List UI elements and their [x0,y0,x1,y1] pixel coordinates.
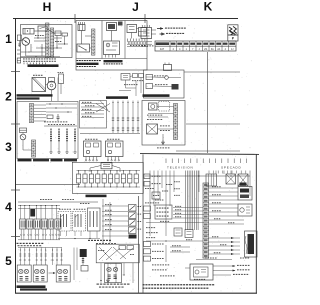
wire down from speaker [51,90,53,101]
terminal mark [61,250,62,251]
chain connector 4 [96,174,100,183]
pilot lamp [165,76,169,80]
below crossover marks [115,277,117,279]
row4 lower wires mid [58,238,100,240]
lamp unit LU2 [33,265,47,282]
wire [19,248,21,266]
stamp cell P [228,35,238,41]
switch S1 [38,26,47,31]
label dashes [147,114,149,117]
amplifier detail box [190,264,213,280]
antenna label ticks [33,74,35,77]
switch bank SW2 [27,219,33,229]
switch column dark connector [129,235,137,239]
wire [230,171,232,175]
J1 inner divider [101,21,103,59]
H1 caption HEADLAMP CLEANER [28,64,59,67]
connector strip CN-3 [92,29,95,55]
wire [40,206,42,220]
wire [165,245,167,262]
J1 caption CUSTOM 4AT left line1 [77,60,79,61]
crossover top connectors [119,246,126,250]
legend arrow symbol female [160,33,165,35]
row4 feed wires [18,201,98,203]
chain connector 1 [77,174,81,183]
crossover diagonals [99,247,133,260]
row4 right long verticals [102,199,104,243]
motor unit [149,103,158,110]
wire bus [127,41,152,43]
wire [51,206,53,220]
amplifier interface box [121,74,130,81]
wire [173,217,203,219]
relay B pins [74,231,76,236]
svg-text:H: H [43,0,52,14]
wire [25,45,27,56]
mid wires to strip [146,240,203,242]
left component chain [17,35,21,41]
lamp unit LU1 [17,265,31,282]
RU-1 pins [85,157,87,160]
wire [223,171,225,175]
switch bank SW4 [41,219,47,229]
J1 caption middle line1 [104,60,123,62]
wire [198,171,200,193]
label ticks above switches [48,123,50,126]
J1 caption left line3 [77,66,79,67]
border frame top [13,18,238,20]
switch bank SW6 pins [55,229,57,234]
left lower option boxes row 1 [144,242,151,247]
crossing wires [96,104,110,113]
grid row tick 2/3 [11,123,20,125]
relay box K1 [23,29,34,35]
pin marks [142,25,144,28]
footnote line 2 [143,288,145,289]
grid row tick 4/5 [11,236,20,238]
mid wire row long [146,222,203,224]
tuner box [146,75,153,80]
wire rows [157,106,174,108]
bus wire [44,125,77,127]
section main feed wire [145,175,250,177]
wire with arrow [209,245,240,247]
terminal mark [41,250,42,251]
crossover side dash [98,249,100,252]
left lamp L2 [20,134,26,140]
row4 mid labels [59,208,61,211]
lamp unit LU4 [105,264,122,283]
box C pins [89,231,91,238]
resistor R1 [62,33,68,36]
wire [249,171,251,197]
wire [219,170,221,172]
wire [102,225,128,227]
ribbon labels [174,180,175,183]
pump motor M2 top connector [78,25,85,31]
svg-text:2: 2 [5,89,12,103]
wire [40,248,42,266]
capacitor C1 [57,114,59,117]
wire [102,215,128,217]
pin labels row [23,58,25,61]
washer switch S2 [77,44,90,52]
grid column tick J/K [144,14,146,23]
right module 2 [238,204,252,216]
wire [153,85,172,88]
row4 lower label dashes mid [88,240,90,241]
pins [105,55,107,58]
wire label [105,209,107,212]
wire [162,134,164,140]
left bottom texts [152,264,154,267]
RU-2 pins [107,157,109,160]
grid rule K column vertical [207,52,209,153]
intermittent relay box [127,25,137,33]
wire [61,248,63,266]
connector strip CN-2 [51,28,54,57]
amp wire rows [81,103,104,105]
right mid wires [209,219,244,221]
door switch DS4 [129,227,137,234]
wire with arrow [209,237,240,239]
motor M1 [22,38,30,46]
chain bus bottom [77,186,141,188]
pillar antenna rod [59,74,64,84]
terminal mark [36,250,37,251]
section header pin ticks [165,159,167,164]
chain connector 2 [83,174,87,183]
wire label [212,209,214,212]
H2 caption AUDIO ANTENNA line1 [17,94,53,96]
svg-text:1J: 1J [231,49,233,51]
wire label [105,203,107,206]
rule above lower-right section [176,150,240,152]
wire [209,203,238,205]
mirror box with cross [147,124,158,134]
switch bank SW6 [55,219,61,229]
left extra small boxes [144,206,151,211]
K3 sub label [157,147,159,150]
wire [36,248,38,266]
wire [21,51,46,53]
footnote line 1 [143,284,145,285]
row4 mid dashed relay box B [73,212,86,232]
chain connector 9 [128,174,132,183]
wire label [105,213,107,216]
wire [102,230,128,232]
vertical harness wires [112,101,114,134]
lower-right section left border [142,154,144,293]
border frame left [15,19,17,294]
wire [119,90,131,92]
switch bank SW5 [49,219,54,229]
svg-text:T E L E V I S I O N: T E L E V I S I O N [167,166,193,170]
row4 mesh dark relay [30,209,35,217]
svg-text:J: J [199,49,200,51]
fuse box F1 [20,128,27,133]
switch bank SW4 pins [42,229,44,234]
wire [102,205,128,207]
wire [46,84,48,86]
wire [173,210,203,212]
H3 caption HORN GLOW band [18,159,32,162]
switch column 4 [74,128,76,152]
wire [19,206,21,220]
border frame bottom [15,292,257,294]
left lower option boxes row 3 [144,256,151,261]
wire [169,171,171,207]
row5 relay dark [80,249,87,257]
wire [56,206,58,220]
terminal mark [52,250,53,251]
switch column 1 [50,128,52,152]
row5 top bus [18,247,62,249]
row5 footer text 2 [99,286,101,289]
switch column 2 [58,128,60,152]
RU-2 label [107,138,109,141]
RU-1 label [85,138,87,141]
wire label [105,223,107,226]
wire [209,191,238,193]
wire [56,248,58,266]
wire [137,28,139,30]
wire [28,248,30,266]
H2 caption line2 [17,97,40,99]
svg-text:3: 3 [5,140,12,154]
terminal mark [45,250,46,251]
wire [157,171,159,197]
row4 caption dashes [17,243,19,244]
eq box [146,84,153,89]
wire [34,30,38,32]
collector wire [80,133,140,135]
relay A internals [60,214,62,227]
grid column tick H/J [74,14,76,23]
wire [102,211,128,213]
wire [111,31,113,42]
switch column side marks [138,205,139,208]
relay A pins [60,231,62,236]
door switch DS3 [129,220,137,227]
pin row [127,39,129,42]
svg-text:5: 5 [5,254,12,268]
relay unit RU-2 [106,141,124,157]
wire [24,248,26,266]
top label wire row [196,259,232,261]
wire [102,220,128,222]
row5 relay lower box [81,266,88,272]
wires below crossover [100,263,102,283]
switch bank SW1 [20,219,26,229]
terminal mark [57,250,58,251]
wire label [105,218,107,221]
relay B internals [74,214,76,227]
wire [102,235,128,237]
connector pin table [155,41,236,51]
row 3/4 separator line H column [16,184,80,186]
wire [52,248,54,266]
table header underline [155,45,236,47]
small marks [160,125,162,128]
upper right X-box 2 [238,174,248,186]
door switch DS1 [129,205,137,212]
crossover junction box [96,244,139,263]
wire [45,248,47,266]
wire label [212,193,214,196]
antenna unit box [32,78,46,92]
radio connector strip CN-4 [30,104,34,123]
H1 block ignition switch circuit box [21,25,73,58]
bridge wire [89,168,91,172]
wire [209,207,238,209]
wire label [212,185,214,188]
chain connector 8 [121,174,125,183]
legend text connector viewed from [165,28,167,29]
border frame right (lower section) [255,154,257,293]
ground G2 [107,278,109,280]
svg-text:J: J [132,0,139,14]
wire [29,206,31,220]
chain connector 7 [115,174,119,183]
left option connector 2 [144,182,150,187]
terminal dashes 2 [130,44,132,47]
J1 caption middle line2 [104,63,106,64]
washer tank unit [104,41,120,55]
junction [41,47,42,48]
upper right X-box 1 [226,174,236,184]
tiny labels [142,45,144,48]
bridge relay [101,163,112,169]
left extra labels [162,190,164,193]
left lower dash rows [146,226,148,229]
wire [153,76,165,79]
K2 caption band [143,94,170,97]
X-box 2 dark pins [240,183,247,186]
wire [173,214,203,216]
tall connector strip CN-B [203,183,209,258]
wire [209,211,238,213]
chain connector 5 [102,174,106,183]
wire [24,206,26,220]
dashed sub box [159,102,170,112]
grid rule row1/2 right area [184,71,240,73]
wire [36,206,38,220]
J1 caption left line2 [77,63,99,65]
connector strip CN-1 [46,23,49,58]
J3 console harness box [72,162,143,193]
right dark module [238,187,252,201]
ground G1 [162,140,164,142]
relay stem [82,257,84,265]
arrow wire labels [212,235,214,238]
wire [81,31,83,45]
wire with arrow [209,249,240,251]
switch column 3 [66,128,68,152]
row4 upper labels [40,198,42,201]
wire [22,133,24,135]
grid row tick 1/2 [11,71,20,73]
row5 caption band 1 [17,285,46,288]
small junction marks [29,52,30,53]
interlock switch box [141,28,152,39]
wire [153,171,155,207]
double dash marks on verticals [112,117,114,119]
lower-left section right border [138,196,140,293]
choke L1 [47,115,53,119]
J1 block washer circuit outer box [76,21,147,71]
switch bank SW5 pins [49,229,51,234]
wire [209,199,238,201]
speaker P1 [47,81,56,90]
svg-text:K: K [204,0,213,13]
dark connector [172,84,179,90]
wire [37,31,39,38]
wire dashes row [154,75,156,78]
wire [23,149,32,151]
pin ticks [78,22,80,25]
svg-text:4AT: 4AT [160,48,165,51]
K3 cd changer block box [142,101,185,146]
arrow wires right of amp [213,265,235,267]
relay unit RU-1 [84,141,102,157]
wire dashes row2 [155,83,157,86]
component small fuse [17,58,21,63]
fanout wires [34,104,47,106]
chain bus top [77,170,141,172]
row4 lower bus [18,239,60,241]
K2 lo-fi block box [144,70,185,98]
wire [34,37,46,39]
left small box [152,192,160,199]
lamp unit LU3 [56,265,70,282]
antenna feeder on top [164,65,172,71]
wire stub left [17,49,21,51]
wire [125,80,127,88]
row4 mid box C [88,208,101,231]
wire [131,33,133,39]
terminal mark [20,250,21,251]
switch bank SW2 pins [27,229,29,234]
revision stamp box [228,25,238,35]
short drop ticks from header [208,171,210,174]
ribbon cable bus [185,171,187,231]
wire rows with junctions [46,103,77,105]
diode D1 [55,31,61,36]
terminal mark [24,250,25,251]
wire labels mid bottom [172,244,174,247]
J1 inner divider 2 [124,21,126,59]
pin labels row [23,60,25,63]
left option connector 1 [144,174,150,179]
svg-text:4: 4 [5,200,12,214]
connector strip CN-5 [32,140,36,157]
wire label [212,201,214,204]
bottom right connector box [245,231,258,257]
interface labels [132,79,134,82]
wire [47,29,55,34]
tiny labels H1 [35,34,37,37]
row5 caption band 2 [20,288,47,290]
wire [45,206,47,220]
wire [21,56,61,58]
wire [173,207,203,209]
J3 caption band [86,195,107,198]
table header cells text [156,42,169,45]
left lower option boxes row 2 [144,249,151,254]
terminal ticks [23,63,25,65]
left labels [145,187,147,190]
